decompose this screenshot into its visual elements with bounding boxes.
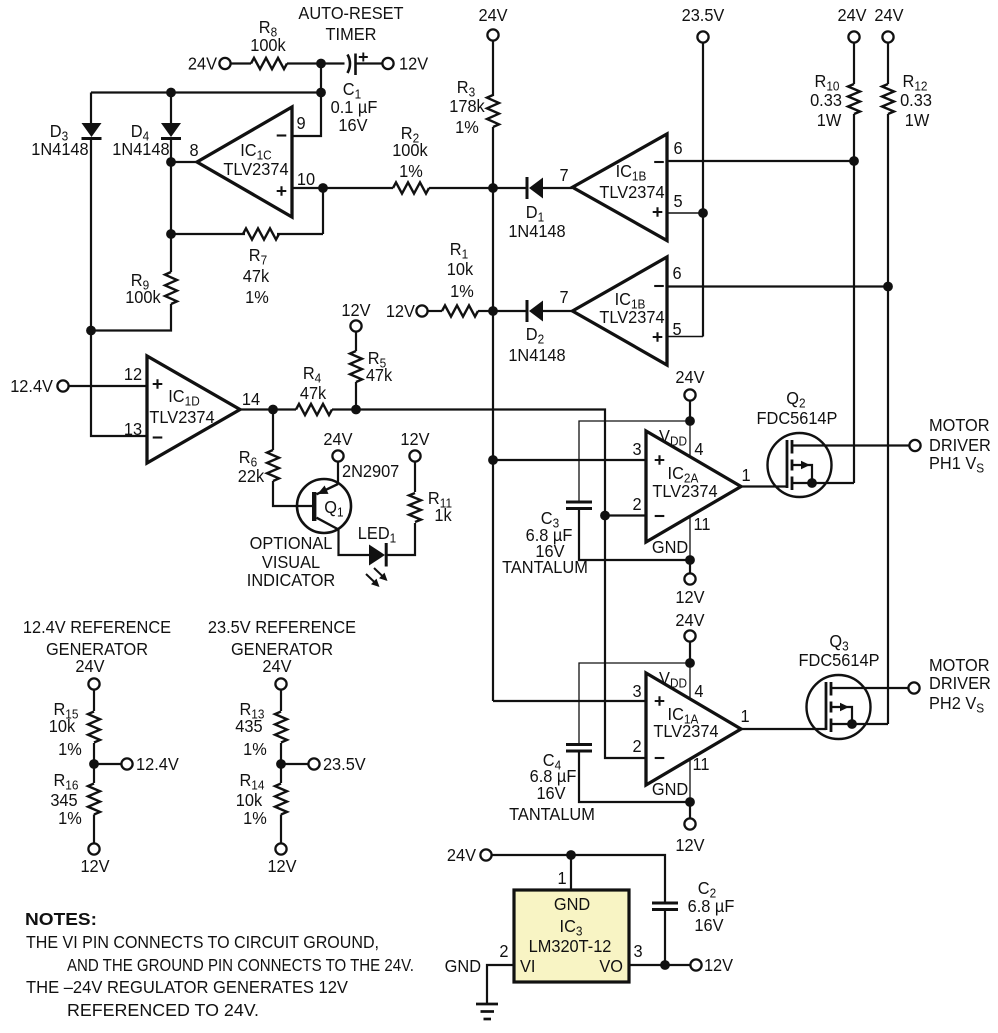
svg-text:8: 8 bbox=[189, 139, 198, 160]
svg-text:435: 435 bbox=[235, 715, 262, 736]
svg-text:1W: 1W bbox=[905, 109, 930, 130]
junction VO/C2 bbox=[660, 960, 670, 970]
svg-text:1%: 1% bbox=[243, 738, 267, 759]
wire LED to R11 bbox=[386, 523, 415, 555]
svg-text:GND: GND bbox=[652, 536, 688, 557]
svg-text:TLV2374: TLV2374 bbox=[652, 480, 718, 501]
svg-text:12V: 12V bbox=[267, 855, 297, 876]
svg-text:TLV2374: TLV2374 bbox=[599, 306, 665, 327]
node 23.5V output terminal bbox=[308, 758, 319, 769]
svg-text:VI: VI bbox=[520, 955, 535, 976]
ground symbol bbox=[476, 1003, 498, 1006]
node 23.5V terminal bbox=[697, 31, 708, 42]
wire R1 left lead bbox=[428, 310, 442, 312]
pin 11 wire IC2A bbox=[689, 517, 691, 560]
wire 24V to VDD dot (IC1A) bbox=[689, 642, 691, 663]
svg-text:47k: 47k bbox=[300, 382, 327, 403]
svg-text:1N4148: 1N4148 bbox=[31, 138, 88, 159]
node 24V terminal (refgen1) bbox=[88, 678, 99, 689]
svg-text:GND: GND bbox=[554, 893, 590, 914]
svg-text:0.33: 0.33 bbox=[810, 89, 842, 110]
junction pin 3 IC2A bbox=[488, 455, 498, 465]
wire R6 leads bbox=[272, 410, 274, 451]
svg-text:7: 7 bbox=[559, 286, 568, 307]
resistor R6 bbox=[267, 450, 279, 481]
svg-text:3: 3 bbox=[632, 438, 641, 459]
wire R3 column bbox=[492, 127, 494, 701]
svg-text:100k: 100k bbox=[250, 34, 286, 55]
svg-text:1W: 1W bbox=[817, 109, 842, 130]
wire to 12.4V terminal bbox=[94, 763, 121, 765]
svg-text:24V: 24V bbox=[188, 53, 218, 74]
svg-text:24V: 24V bbox=[447, 844, 477, 865]
svg-text:INDICATOR: INDICATOR bbox=[247, 569, 335, 590]
resistor R12 bbox=[882, 84, 894, 114]
svg-text:23.5V: 23.5V bbox=[323, 753, 366, 774]
node 24V terminal (IC1A VDD) bbox=[684, 630, 695, 641]
junction GND IC1A bbox=[685, 797, 695, 807]
svg-text:1: 1 bbox=[740, 705, 749, 726]
svg-text:PH1 VS: PH1 VS bbox=[929, 452, 984, 475]
node 24V terminal (R10) bbox=[848, 31, 859, 42]
svg-text:24V: 24V bbox=[874, 4, 904, 25]
wire R7 left lead bbox=[171, 233, 245, 235]
pin 4 wire IC1A bbox=[689, 663, 691, 699]
wire R5 top lead bbox=[355, 332, 357, 351]
node 24V terminal (R3) bbox=[487, 29, 498, 40]
svg-text:24V: 24V bbox=[675, 609, 705, 630]
resistor R13 bbox=[275, 712, 287, 743]
svg-text:TANTALUM: TANTALUM bbox=[509, 803, 595, 824]
wire pin 3 IC1A bbox=[493, 700, 646, 702]
svg-text:12V: 12V bbox=[386, 300, 416, 321]
svg-text:PH2 VS: PH2 VS bbox=[929, 692, 984, 715]
svg-text:1%: 1% bbox=[455, 116, 479, 137]
diode D1 bbox=[493, 187, 526, 189]
svg-text:16V: 16V bbox=[338, 114, 368, 135]
svg-text:THE VI PIN CONNECTS TO CIRCUIT: THE VI PIN CONNECTS TO CIRCUIT GROUND, bbox=[26, 931, 379, 952]
svg-text:3: 3 bbox=[633, 940, 642, 961]
svg-text:0.33: 0.33 bbox=[900, 89, 932, 110]
wire R10 column bbox=[853, 114, 855, 483]
svg-text:OPTIONAL: OPTIONAL bbox=[250, 532, 333, 553]
svg-text:23.5V: 23.5V bbox=[682, 4, 725, 25]
resistor R9 bbox=[165, 272, 177, 304]
node 24V input terminal (R8) bbox=[219, 58, 230, 69]
svg-text:24V: 24V bbox=[323, 428, 353, 449]
resistor R5 bbox=[350, 351, 362, 382]
node 24V terminal (regulator) bbox=[480, 849, 491, 860]
svg-text:4: 4 bbox=[694, 680, 704, 701]
wire pin 6 (top IC1B) bbox=[667, 160, 854, 162]
wire R16 bottom lead bbox=[93, 815, 95, 844]
wire R12 column bbox=[887, 114, 889, 724]
svg-text:TLV2374: TLV2374 bbox=[149, 406, 215, 427]
wire R14 bottom lead bbox=[280, 815, 282, 844]
wire pin 5 (top IC1B) bbox=[667, 212, 703, 214]
node MOTOR DRIVER PH1 terminal bbox=[909, 440, 920, 451]
svg-text:TIMER: TIMER bbox=[326, 23, 377, 44]
wire GND to 12V terminal bbox=[689, 560, 691, 573]
wire IC2A output to Q2 gate bbox=[741, 485, 787, 487]
wire R8 left lead bbox=[231, 62, 251, 64]
svg-text:6.8 µF: 6.8 µF bbox=[688, 895, 735, 916]
svg-text:12.4V: 12.4V bbox=[136, 753, 179, 774]
svg-text:16V: 16V bbox=[536, 782, 566, 803]
wire Q1 collector down bbox=[339, 530, 370, 556]
wire pin 3 IC2A bbox=[493, 459, 646, 461]
pin 4 wire IC2A bbox=[689, 421, 691, 457]
node 24V terminal (Q1) bbox=[332, 450, 343, 461]
svg-text:13: 13 bbox=[124, 418, 142, 439]
junction IC1D out / R4 / R6 bbox=[268, 405, 278, 415]
transistor Q3 bbox=[807, 675, 871, 739]
wire R4 right lead bbox=[332, 408, 356, 410]
svg-text:GND: GND bbox=[652, 778, 688, 799]
resistor R16 bbox=[88, 784, 100, 815]
wire pin 5 (bottom IC1B) bbox=[667, 336, 703, 338]
wire pin 2 IC2A stub bbox=[605, 514, 646, 516]
wire R1 right lead bbox=[478, 310, 493, 312]
junction pin5/23.5V column bbox=[698, 208, 708, 218]
svg-text:2N2907: 2N2907 bbox=[342, 460, 399, 481]
wire VDD thin rail (IC1A) bbox=[579, 663, 690, 744]
junction R7/R9/D4 bbox=[166, 229, 176, 239]
svg-text:6: 6 bbox=[673, 137, 682, 158]
svg-text:3: 3 bbox=[632, 680, 641, 701]
svg-text:VO: VO bbox=[599, 955, 623, 976]
resistor R15 bbox=[88, 712, 100, 743]
svg-text:2: 2 bbox=[632, 735, 641, 756]
svg-text:47k: 47k bbox=[243, 265, 270, 286]
resistor R3 bbox=[487, 95, 499, 127]
wire R13 bottom lead bbox=[280, 743, 282, 764]
pin 11 wire IC1A bbox=[689, 759, 691, 802]
svg-text:1N4148: 1N4148 bbox=[508, 344, 565, 365]
transistor Q2 bbox=[768, 433, 832, 497]
junction VDD IC1A bbox=[685, 658, 695, 668]
wire R16 top lead bbox=[93, 764, 95, 783]
junction left column bbox=[86, 326, 96, 336]
wire pin 2 VI bbox=[487, 965, 514, 1003]
wire R9 leads bbox=[170, 234, 172, 272]
svg-text:7: 7 bbox=[559, 164, 568, 185]
wire IC1A output to Q3 gate bbox=[741, 728, 826, 730]
svg-text:24V: 24V bbox=[837, 4, 867, 25]
wire R4 left lead bbox=[273, 408, 296, 410]
wire 24V to VDD dot bbox=[689, 401, 691, 421]
wire pin 6 (bottom IC1B) bbox=[667, 285, 888, 287]
diode D4 bbox=[170, 93, 172, 124]
wire GND to 12V terminal (IC1A) bbox=[689, 802, 691, 818]
svg-text:FDC5614P: FDC5614P bbox=[757, 407, 838, 428]
junction GND IC2A bbox=[685, 555, 695, 565]
svg-text:2: 2 bbox=[632, 493, 641, 514]
junction pin6/R10 column bbox=[849, 156, 859, 166]
capacitor C1 bbox=[321, 62, 345, 64]
node 12V terminal (R1) bbox=[416, 305, 427, 316]
resistor R2 bbox=[393, 182, 429, 193]
wire R12 top lead bbox=[887, 43, 889, 84]
resistor R10 bbox=[848, 84, 860, 114]
node 12V terminal (IC2A GND) bbox=[684, 573, 695, 584]
svg-text:12V: 12V bbox=[80, 855, 110, 876]
node 12V terminal (C1) bbox=[382, 58, 393, 69]
svg-text:1%: 1% bbox=[245, 286, 269, 307]
svg-text:24V: 24V bbox=[675, 366, 705, 387]
wire pin 3 VO bbox=[629, 964, 690, 966]
svg-text:NOTES:: NOTES: bbox=[25, 908, 97, 929]
svg-text:178k: 178k bbox=[449, 95, 485, 116]
svg-text:100k: 100k bbox=[125, 286, 161, 307]
junction R2/D1/R3 column bbox=[488, 183, 498, 193]
node 12.4V input terminal bbox=[57, 380, 68, 391]
svg-text:12: 12 bbox=[124, 363, 142, 384]
wire left column to pin 13 bbox=[91, 331, 147, 437]
svg-text:REFERENCED TO 24V.: REFERENCED TO 24V. bbox=[67, 999, 259, 1020]
wire R10 top lead bbox=[853, 43, 855, 84]
wire R15 top lead bbox=[93, 690, 95, 711]
wire pin 10 bbox=[292, 187, 323, 189]
svg-text:47k: 47k bbox=[366, 364, 393, 385]
node 12V terminal (refgen2) bbox=[275, 843, 286, 854]
wire to 23.5V terminal bbox=[281, 763, 308, 765]
junction vertical-top rail bbox=[316, 88, 326, 98]
svg-text:9: 9 bbox=[296, 112, 305, 133]
op-amp IC1D bbox=[147, 356, 240, 463]
wire R15 bottom lead bbox=[93, 743, 95, 764]
svg-text:1: 1 bbox=[557, 867, 566, 888]
resistor R14 bbox=[275, 784, 287, 815]
svg-text:1: 1 bbox=[741, 464, 750, 485]
svg-text:5: 5 bbox=[673, 190, 682, 211]
wire R7 right lead bbox=[277, 233, 323, 235]
svg-text:1N4148: 1N4148 bbox=[508, 220, 565, 241]
wire R13 top lead bbox=[280, 690, 282, 711]
wire C3 bottom / GND rail (IC2A) bbox=[579, 509, 690, 561]
svg-text:4: 4 bbox=[694, 438, 704, 459]
svg-text:11: 11 bbox=[692, 753, 709, 774]
svg-text:24V: 24V bbox=[75, 655, 105, 676]
svg-text:23.5V REFERENCE: 23.5V REFERENCE bbox=[208, 616, 356, 637]
wire node A vertical (R8/C1 junction down to pin 9) bbox=[292, 64, 321, 137]
wire pin 8 output bbox=[171, 161, 197, 163]
svg-text:1%: 1% bbox=[450, 280, 474, 301]
wire R5 bottom lead bbox=[355, 382, 357, 410]
resistor R4 bbox=[296, 404, 332, 415]
node 24V terminal (IC2A VDD) bbox=[684, 389, 695, 400]
svg-text:12V: 12V bbox=[704, 954, 734, 975]
svg-text:1k: 1k bbox=[434, 504, 452, 525]
wire VDD thin rail (IC2A) bbox=[579, 421, 690, 502]
svg-text:12V: 12V bbox=[399, 53, 429, 74]
resistor R1 bbox=[442, 305, 478, 316]
svg-text:14: 14 bbox=[242, 388, 261, 409]
svg-text:MOTOR: MOTOR bbox=[929, 414, 990, 435]
svg-text:12V: 12V bbox=[675, 586, 705, 607]
svg-text:DRIVER: DRIVER bbox=[929, 672, 991, 693]
junction pin 1 bbox=[566, 850, 576, 860]
capacitor C2 bbox=[652, 902, 678, 905]
LED LED1 bbox=[369, 545, 385, 566]
wire R8 right lead bbox=[287, 62, 321, 64]
svg-text:1%: 1% bbox=[243, 807, 267, 828]
node MOTOR DRIVER PH2 terminal bbox=[908, 682, 919, 693]
node 12.4V output terminal bbox=[121, 758, 132, 769]
svg-text:AUTO-RESET: AUTO-RESET bbox=[298, 2, 404, 23]
svg-text:TLV2374: TLV2374 bbox=[223, 158, 289, 179]
node 12V terminal (R11) bbox=[409, 450, 420, 461]
junction VDD IC2A bbox=[685, 416, 695, 426]
wire pin 1 bbox=[570, 855, 572, 890]
svg-text:24V: 24V bbox=[478, 4, 508, 25]
svg-text:24V: 24V bbox=[262, 655, 292, 676]
junction refgen1 bbox=[89, 759, 99, 769]
wire 24V rail to C2 bbox=[492, 855, 665, 903]
op-amp IC1B (bottom) bbox=[573, 257, 668, 365]
node 24V terminal (refgen2) bbox=[275, 678, 286, 689]
node 12V output terminal (regulator) bbox=[690, 959, 701, 970]
wire R2 right lead bbox=[429, 187, 493, 189]
svg-text:10: 10 bbox=[297, 168, 315, 189]
wire 23.5V column bbox=[702, 43, 704, 337]
junction refgen2 bbox=[276, 759, 286, 769]
svg-text:12.4V REFERENCE: 12.4V REFERENCE bbox=[23, 616, 171, 637]
junction pin 2 IC2A bbox=[600, 511, 610, 521]
svg-text:1%: 1% bbox=[58, 807, 82, 828]
op-amp IC1C bbox=[197, 107, 292, 217]
wire R2 left lead bbox=[323, 187, 393, 189]
svg-text:100k: 100k bbox=[392, 139, 428, 160]
svg-text:1%: 1% bbox=[58, 738, 82, 759]
svg-text:TANTALUM: TANTALUM bbox=[502, 556, 588, 577]
wire R7 vertical stub bbox=[322, 188, 324, 234]
svg-text:22k: 22k bbox=[238, 465, 265, 486]
diode D2 bbox=[493, 310, 526, 312]
svg-text:10k: 10k bbox=[49, 715, 76, 736]
wire R11 top lead bbox=[414, 462, 416, 492]
svg-text:TLV2374: TLV2374 bbox=[599, 181, 665, 202]
regulator IC3 bbox=[514, 890, 629, 982]
resistor R7 bbox=[243, 228, 279, 239]
op-amp IC1A bbox=[646, 673, 741, 785]
svg-text:1N4148: 1N4148 bbox=[112, 138, 169, 159]
svg-text:GND: GND bbox=[445, 955, 481, 976]
svg-text:12V: 12V bbox=[400, 428, 430, 449]
node 24V terminal (R12) bbox=[882, 31, 893, 42]
junction pin6/R12 column bbox=[883, 282, 893, 292]
op-amp IC2A bbox=[646, 431, 741, 542]
svg-text:THE –24V REGULATOR GENERATES 1: THE –24V REGULATOR GENERATES 12V bbox=[26, 976, 348, 997]
junction R8-C1 bbox=[316, 59, 326, 69]
junction pin 10 / R2 / R7 bbox=[318, 183, 328, 193]
svg-text:12.4V: 12.4V bbox=[10, 375, 53, 396]
svg-text:LM320T-12: LM320T-12 bbox=[529, 935, 612, 956]
svg-text:2: 2 bbox=[499, 940, 508, 961]
svg-text:12V: 12V bbox=[341, 299, 371, 320]
op-amp IC1B (top) bbox=[573, 134, 668, 241]
diode D3 bbox=[90, 93, 92, 124]
svg-text:11: 11 bbox=[693, 513, 710, 534]
capacitor C4 bbox=[566, 743, 592, 746]
wire top rail bbox=[91, 91, 321, 93]
node 12V terminal (IC1A GND) bbox=[684, 818, 695, 829]
resistor R8 bbox=[251, 58, 287, 69]
svg-text:AND THE GROUND PIN CONNECTS TO: AND THE GROUND PIN CONNECTS TO THE 24V. bbox=[67, 954, 414, 975]
wire Q1 emitter to 24V bbox=[337, 462, 339, 484]
svg-text:1%: 1% bbox=[399, 160, 423, 181]
capacitor C3 bbox=[566, 501, 592, 504]
junction pin 8 bbox=[166, 157, 176, 167]
junction R4/R5 bbox=[351, 405, 361, 415]
resistor R11 bbox=[409, 493, 421, 522]
node 12V terminal (refgen1) bbox=[88, 843, 99, 854]
wire R14 top lead bbox=[280, 764, 282, 783]
wire C4 bottom / GND rail (IC1A) bbox=[579, 751, 690, 802]
LED light arrows bbox=[374, 568, 386, 580]
svg-text:FDC5614P: FDC5614P bbox=[799, 649, 880, 670]
transistor Q1 bbox=[297, 479, 351, 533]
svg-text:16V: 16V bbox=[694, 914, 724, 935]
wire output net to inverting inputs bbox=[356, 410, 646, 759]
junction D4 top bbox=[166, 88, 176, 98]
svg-text:TLV2374: TLV2374 bbox=[653, 720, 719, 741]
wire IC1D output bbox=[240, 408, 273, 410]
svg-text:10k: 10k bbox=[447, 258, 474, 279]
node 12V terminal (R5) bbox=[350, 320, 361, 331]
svg-text:12V: 12V bbox=[675, 834, 705, 855]
junction R1/D2 bbox=[488, 306, 498, 316]
wire R3 top lead bbox=[492, 41, 494, 96]
wire 12.4V to pin 12 bbox=[69, 385, 147, 387]
svg-text:6: 6 bbox=[672, 262, 681, 283]
